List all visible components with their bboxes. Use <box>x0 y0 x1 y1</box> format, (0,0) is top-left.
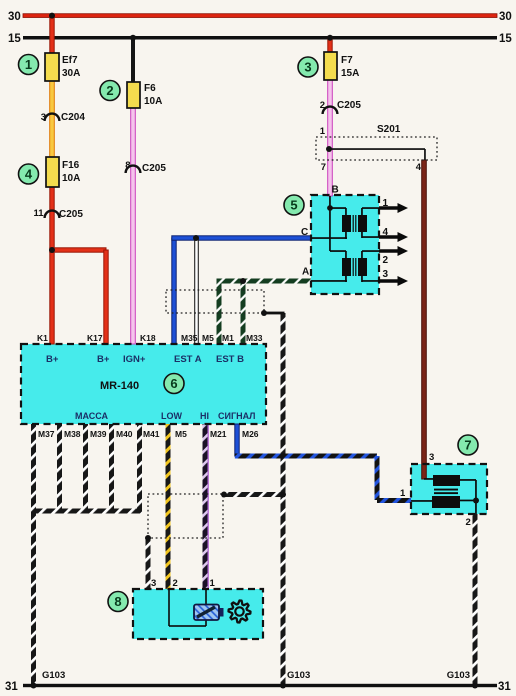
svg-text:M39: M39 <box>90 429 107 439</box>
svg-text:2: 2 <box>466 517 471 528</box>
svg-text:K18: K18 <box>140 333 156 343</box>
svg-text:4: 4 <box>416 162 422 173</box>
svg-text:C204: C204 <box>61 112 85 123</box>
svg-text:M37: M37 <box>38 429 55 439</box>
svg-text:M41: M41 <box>143 429 160 439</box>
svg-text:G103: G103 <box>447 670 470 681</box>
svg-text:15A: 15A <box>341 68 359 79</box>
svg-text:A: A <box>302 267 309 278</box>
svg-text:8: 8 <box>114 594 121 609</box>
svg-text:1: 1 <box>383 198 389 209</box>
svg-text:F6: F6 <box>144 83 156 94</box>
svg-text:M40: M40 <box>116 429 133 439</box>
svg-text:M33: M33 <box>246 333 263 343</box>
svg-text:M5: M5 <box>202 333 214 343</box>
svg-text:1: 1 <box>25 57 32 72</box>
svg-text:4: 4 <box>25 167 33 182</box>
svg-text:K1: K1 <box>37 333 48 343</box>
svg-text:15: 15 <box>499 33 512 45</box>
svg-text:B+: B+ <box>97 354 110 365</box>
svg-text:IGN+: IGN+ <box>123 354 146 365</box>
svg-text:11: 11 <box>33 208 44 219</box>
svg-text:M35: M35 <box>181 333 198 343</box>
svg-text:EST B: EST B <box>216 354 244 365</box>
svg-text:31: 31 <box>498 681 511 693</box>
svg-text:7: 7 <box>321 162 326 173</box>
svg-text:СИГНАЛ: СИГНАЛ <box>218 411 256 421</box>
svg-text:3: 3 <box>304 60 311 75</box>
svg-text:M38: M38 <box>64 429 81 439</box>
svg-text:1: 1 <box>400 488 406 499</box>
svg-text:EST A: EST A <box>174 354 202 365</box>
svg-text:M21: M21 <box>210 429 227 439</box>
svg-text:F7: F7 <box>341 55 353 66</box>
svg-text:8: 8 <box>125 160 130 171</box>
svg-text:3: 3 <box>383 269 389 280</box>
svg-text:4: 4 <box>383 227 389 238</box>
svg-text:Ef7: Ef7 <box>62 55 78 66</box>
svg-text:2: 2 <box>320 100 325 111</box>
svg-text:M5: M5 <box>175 429 187 439</box>
svg-text:5: 5 <box>290 198 297 213</box>
svg-text:6: 6 <box>170 376 177 391</box>
svg-text:30: 30 <box>499 11 512 23</box>
svg-text:C205: C205 <box>59 209 83 220</box>
svg-text:30A: 30A <box>62 68 80 79</box>
svg-text:S201: S201 <box>377 124 401 135</box>
svg-text:10A: 10A <box>144 96 162 107</box>
svg-text:3: 3 <box>429 452 434 463</box>
svg-text:2: 2 <box>173 578 178 589</box>
svg-text:3: 3 <box>41 112 46 123</box>
svg-text:HI: HI <box>200 411 209 421</box>
svg-text:15: 15 <box>8 33 21 45</box>
svg-text:K17: K17 <box>87 333 103 343</box>
svg-text:2: 2 <box>383 255 389 266</box>
svg-text:MR-140: MR-140 <box>100 380 139 392</box>
svg-text:1: 1 <box>320 126 326 137</box>
svg-text:МАССА: МАССА <box>75 411 109 421</box>
svg-text:C205: C205 <box>142 163 166 174</box>
svg-text:1: 1 <box>210 578 216 589</box>
svg-text:30: 30 <box>8 11 21 23</box>
svg-text:M1: M1 <box>222 333 234 343</box>
svg-text:B: B <box>332 185 339 196</box>
svg-text:M26: M26 <box>242 429 259 439</box>
svg-text:C205: C205 <box>337 100 361 111</box>
svg-text:10A: 10A <box>62 173 80 184</box>
svg-text:G103: G103 <box>287 670 310 681</box>
svg-text:F16: F16 <box>62 160 80 171</box>
svg-text:LOW: LOW <box>161 411 182 421</box>
svg-text:3: 3 <box>151 578 156 589</box>
svg-text:B+: B+ <box>46 354 59 365</box>
svg-text:7: 7 <box>464 438 471 453</box>
svg-text:2: 2 <box>106 83 113 98</box>
svg-text:31: 31 <box>5 681 18 693</box>
svg-text:C: C <box>301 227 308 238</box>
svg-text:G103: G103 <box>42 670 65 681</box>
